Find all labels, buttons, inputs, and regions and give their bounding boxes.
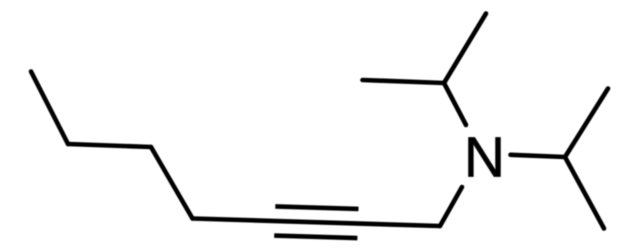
bond right CH-CH3 upper [565,89,608,158]
bond right CH-CH3 lower [565,157,604,229]
bond C1-N [440,187,462,226]
bond C7-C6 (terminal methyl to CH2) [31,72,68,145]
bond N-CH right isopropyl [511,155,566,157]
bond C6-C5 [68,144,151,147]
bond C5-C4 [151,147,193,219]
triple bond upper line C3-C2 [275,206,358,209]
bond top CH-CH3 left [363,80,445,83]
bond top CH-CH3 upper right [444,14,486,84]
svg-text:N: N [464,126,505,190]
bond C4-C3-C2-C1 central chain line through alkyne [193,219,441,227]
bond N-CH top isopropyl [444,83,466,125]
triple bond lower line C3-C2 [274,236,357,239]
